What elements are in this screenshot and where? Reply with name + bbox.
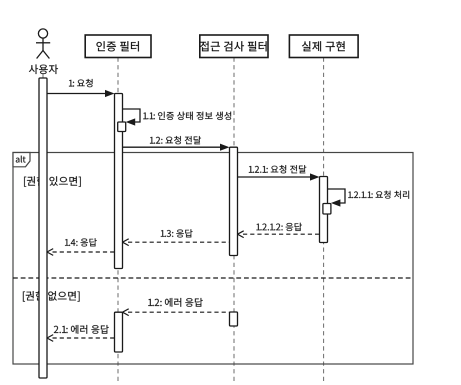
return 1.3: 응답	[123, 229, 230, 245]
guard [권한 없으면]	[23, 291, 80, 301]
self-message 1.2.1.1: 요청 처리	[328, 189, 410, 207]
participant 실제 구현	[289, 35, 358, 58]
guard [권한 있으면]	[24, 176, 81, 186]
participant 접근 검사 필터	[200, 35, 268, 58]
nested activation 실제 구현	[323, 204, 331, 215]
lifeline 사용자	[42, 74, 44, 378]
alt divider	[13, 277, 413, 279]
message 1.2: 요청 전달	[123, 136, 230, 151]
participant 인증 필터	[85, 35, 151, 58]
lifeline 실제 구현	[323, 58, 325, 383]
actor label 사용자	[29, 64, 58, 74]
activation 실제 구현	[320, 177, 328, 243]
activation 접근 검사 필터 1	[230, 147, 238, 255]
actor 사용자	[36, 29, 50, 59]
message 1: 요청	[47, 79, 115, 97]
lifeline 접근 검사 필터	[233, 58, 235, 383]
self-message 1.1: 인증 상태 정보 생성	[123, 109, 232, 126]
activation 사용자	[39, 78, 47, 378]
return 1.2.1.2: 응답	[238, 223, 320, 238]
activation 인증 필터 1	[115, 94, 123, 269]
activation 접근 검사 필터 2	[230, 312, 238, 326]
return 1.2: 에러 응답	[123, 298, 230, 316]
lifeline 인증 필터	[117, 58, 119, 383]
return 1.4: 응답	[47, 238, 115, 255]
alt frame	[13, 153, 413, 365]
return 2.1: 에러 응답	[47, 325, 115, 341]
alt label pentagon	[13, 153, 30, 167]
activation 인증 필터 2	[115, 312, 123, 352]
message 1.2.1: 요청 전달	[238, 165, 320, 180]
nested activation 인증 필터	[118, 122, 126, 132]
